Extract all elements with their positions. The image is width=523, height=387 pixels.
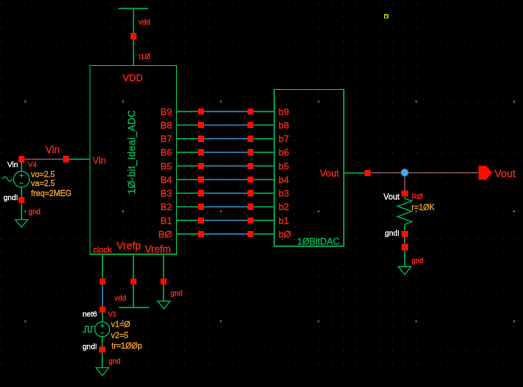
svg-text:Vrefp: Vrefp [117, 241, 142, 252]
wire Vin to ADC [69, 158, 90, 160]
svg-text:B2: B2 [160, 202, 172, 213]
pin square B6 right [248, 149, 254, 155]
wire B1 stub from ADC [177, 219, 199, 221]
label gnd (V4 branch) [29, 207, 41, 216]
label Vin (ADC pin) [93, 156, 107, 167]
pin square Vrefm [160, 278, 166, 284]
svg-text:freq=2MEG: freq=2MEG [31, 189, 72, 198]
pin square B8 left [198, 122, 204, 128]
svg-text:clock: clock [93, 245, 113, 254]
label gnd! (net name at V4) [4, 193, 19, 202]
svg-text:BØ: BØ [158, 229, 172, 240]
pin square B9 right [248, 108, 254, 114]
label VDD (ADC pin) [123, 73, 143, 84]
svg-text:b9: b9 [279, 107, 290, 118]
wire B3 stub from ADC [177, 192, 199, 194]
pin square Vrefp [130, 278, 136, 284]
svg-text:gnd!: gnd! [4, 193, 19, 202]
pin square B&#216; left [198, 231, 204, 237]
wire vdd stem to ADC VDD pin [133, 40, 135, 66]
svg-text:b8: b8 [279, 121, 290, 132]
svg-text:B6: B6 [160, 148, 172, 159]
pin square B7 right [248, 136, 254, 142]
wire B8 stub from ADC [177, 124, 199, 126]
svg-text:b1: b1 [279, 216, 290, 227]
label vdd (Vrefp supply) [115, 294, 127, 303]
wire B7 stub from ADC [177, 138, 199, 140]
pin square B3 left [198, 190, 204, 196]
svg-text:b7: b7 [279, 134, 290, 145]
svg-text:v2=5: v2=5 [111, 331, 129, 340]
label Vin (net label) [46, 145, 60, 156]
wire clock stub down [102, 254, 104, 278]
pin square B2 right [248, 204, 254, 210]
wire R0 to gnd (blue) [404, 237, 406, 244]
svg-text:gnd: gnd [29, 207, 41, 216]
wire clock net (blue) [102, 285, 104, 307]
wire V4 bottom lead [21, 187, 23, 197]
pin square gnd (V4 branch) [18, 197, 24, 203]
svg-text:I1Ø: I1Ø [139, 52, 151, 61]
label B9 (ADC output pin) [160, 107, 172, 118]
svg-text:Vin: Vin [46, 145, 60, 156]
ground (R0 branch) [398, 267, 411, 275]
svg-text:tr=1ØØp: tr=1ØØp [112, 342, 143, 351]
label B1 (ADC output pin) [160, 216, 172, 227]
label b1 (DAC input pin) [279, 216, 290, 227]
svg-text:B8: B8 [160, 121, 172, 132]
svg-text:va=2.5: va=2.5 [31, 179, 56, 188]
pin square B6 left [198, 149, 204, 155]
svg-text:bØ: bØ [279, 229, 292, 240]
pin square B7 left [198, 136, 204, 142]
wire Vout down to R0 (highlighted) [404, 176, 406, 190]
svg-text:Vout: Vout [383, 193, 400, 202]
output pin Vout (arrow) [479, 166, 493, 180]
label Vout (output net, large) [495, 168, 516, 180]
wire bit2 (blue) [204, 206, 247, 208]
label vo=2.5 (V4 value) [31, 170, 56, 179]
wire b6 stub into DAC [254, 151, 275, 153]
pin square gnd (V1 branch) [99, 346, 105, 352]
wire Vrefp stub down [132, 254, 134, 278]
op-amp/ADC block I10 body (10-bit_Ideal_ADC) [90, 66, 177, 255]
label b2 (DAC input pin) [279, 202, 290, 213]
pin square B4 right [248, 177, 254, 183]
wire b9 stub into DAC [254, 111, 275, 113]
label gnd (Vrefm branch) [171, 289, 183, 298]
pin square R0 bottom [402, 231, 408, 237]
svg-text:1ØBitDAC: 1ØBitDAC [297, 237, 340, 247]
svg-text:B5: B5 [160, 161, 172, 172]
svg-text:Vrefm: Vrefm [145, 244, 171, 255]
svg-text:V1: V1 [108, 310, 117, 319]
svg-text:v1=Ø: v1=Ø [111, 320, 130, 329]
wire Vrefm stub down [163, 254, 165, 278]
pin square B8 right [248, 122, 254, 128]
wire bit3 (blue) [204, 192, 247, 194]
pin square Vin right [63, 156, 69, 162]
svg-text:gnd!: gnd! [385, 228, 400, 237]
label Vrefp (ADC pin) [117, 241, 142, 252]
wire B2 stub from ADC [177, 206, 199, 208]
label B7 (ADC output pin) [160, 134, 172, 145]
label r=10K (resistor value) [412, 203, 436, 212]
svg-text:b6: b6 [279, 148, 290, 159]
label Vrefm (ADC pin) [145, 244, 171, 255]
label V4 (source name) [28, 160, 37, 169]
wire Vrefp to vdd bar [132, 285, 134, 308]
wire b8 stub into DAC [254, 124, 275, 126]
pin square on vdd stem [130, 33, 136, 39]
ground (Vrefm branch) [158, 301, 171, 309]
ground (V4 branch) [15, 220, 28, 228]
wire b1 stub into DAC [254, 219, 275, 221]
label B2 (ADC output pin) [160, 202, 172, 213]
label vdd (top supply) [139, 18, 151, 27]
label b&#216; (DAC input pin) [279, 229, 292, 240]
wire b2 stub into DAC [254, 206, 275, 208]
label gnd (V1 branch) [109, 357, 121, 366]
pulse symbol of V1 [83, 326, 95, 332]
voltage source V1 (vpulse) [95, 322, 110, 337]
pin square B4 left [198, 177, 204, 183]
wire bit0 (blue) [204, 233, 247, 235]
label gnd (R0 branch) [412, 256, 424, 265]
label net6 (net name) [83, 310, 98, 319]
label B5 (ADC output pin) [160, 161, 172, 172]
sine symbol of V4 [3, 177, 13, 181]
svg-text:B4: B4 [160, 175, 172, 186]
svg-text:gnd: gnd [412, 256, 424, 265]
wire B&#216; stub from ADC [177, 233, 199, 235]
pin square B3 right [248, 190, 254, 196]
wire bit9 (blue) [204, 111, 247, 113]
wire b7 stub into DAC [254, 138, 275, 140]
svg-text:gnd: gnd [109, 357, 121, 366]
pin square B5 left [198, 163, 204, 169]
label va=2.5 (V4 value) [31, 179, 56, 188]
svg-text:Vout: Vout [495, 168, 516, 180]
wire b&#216; stub into DAC [254, 233, 275, 235]
svg-text:Vin: Vin [93, 156, 107, 167]
pin square clock [99, 278, 105, 284]
label gnd! (net name at R0 gnd) [385, 228, 400, 237]
wire V1 top lead [102, 313, 104, 322]
label b4 (DAC input pin) [279, 175, 290, 186]
label b3 (DAC input pin) [279, 189, 290, 200]
label v2=5 (V1 value) [111, 331, 129, 340]
svg-text:1Ø-bit_Ideal_ADC: 1Ø-bit_Ideal_ADC [127, 110, 138, 194]
label gnd! (net name at V1) [83, 342, 98, 351]
pin square DAC Vout [364, 170, 370, 176]
vdd supply bar (Vrefp) [119, 307, 149, 309]
wire Vin net (highlighted) [25, 158, 63, 160]
label B4 (ADC output pin) [160, 175, 172, 186]
wire Vrefm to gnd [163, 285, 165, 302]
label clock (ADC pin) [93, 245, 113, 254]
wire bit6 (blue) [204, 151, 247, 153]
pin square B9 left [198, 108, 204, 114]
resistor R0 zigzag [398, 197, 412, 231]
wire B5 stub from ADC [177, 165, 199, 167]
vdd supply symbol [118, 9, 148, 34]
pin square B2 left [198, 204, 204, 210]
origin marker (yellow) [385, 15, 388, 18]
svg-text:gnd!: gnd! [83, 342, 98, 351]
label b5 (DAC input pin) [279, 161, 290, 172]
wire b3 stub into DAC [254, 192, 275, 194]
svg-text:vdd: vdd [115, 294, 127, 303]
label v1=0 (V1 value) [111, 320, 130, 329]
wire bit5 (blue) [204, 165, 247, 167]
svg-text:net6: net6 [83, 310, 98, 319]
svg-text:Vout: Vout [320, 169, 339, 180]
label B8 (ADC output pin) [160, 121, 172, 132]
voltage source V4 (vsin) [14, 171, 30, 187]
wire gnd stem (V1 branch) [101, 353, 103, 368]
ADC cell name 10-bit_Ideal_ADC [127, 110, 138, 194]
DAC cell name 10BitDAC [297, 237, 340, 247]
wire bit7 (blue) [204, 138, 247, 140]
svg-text:gnd: gnd [171, 289, 183, 298]
label B&#216; (ADC output pin) [158, 229, 172, 240]
wire V1 bottom lead [101, 337, 103, 347]
label Vout (DAC output pin) [320, 169, 339, 180]
label I10 (ADC instance name) [139, 52, 151, 61]
wire V4 top lead [21, 162, 23, 171]
wire bit4 (blue) [204, 179, 247, 181]
svg-text:vdd: vdd [139, 18, 151, 27]
pin square B&#216; right [248, 231, 254, 237]
wire B9 stub from ADC [177, 111, 199, 113]
wire b5 stub into DAC [254, 165, 275, 167]
wire b4 stub into DAC [254, 179, 275, 181]
pin square Vin left [18, 156, 24, 162]
svg-text:B1: B1 [160, 216, 172, 227]
svg-text:VDD: VDD [123, 73, 143, 84]
svg-text:Vin: Vin [7, 160, 18, 169]
pin square B5 right [248, 163, 254, 169]
wire gnd stem (R0 branch) [404, 250, 406, 266]
wire Vout net (highlighted) [371, 172, 479, 174]
wire bit1 (blue) [204, 219, 247, 221]
svg-text:b2: b2 [279, 202, 290, 213]
pin square net6 [99, 306, 105, 312]
pin square gnd (R0 branch) [402, 244, 408, 250]
svg-text:b3: b3 [279, 189, 290, 200]
pin square B1 right [248, 217, 254, 223]
label b7 (DAC input pin) [279, 134, 290, 145]
svg-text:B3: B3 [160, 189, 172, 200]
svg-text:vo=2.5: vo=2.5 [31, 170, 56, 179]
svg-text:RØ: RØ [412, 192, 423, 201]
label R0 (resistor name) [412, 192, 423, 201]
label B3 (ADC output pin) [160, 189, 172, 200]
svg-text:B7: B7 [160, 134, 172, 145]
DAC block body (10BitDAC) [274, 90, 344, 247]
label Vin (net name, white) [7, 160, 18, 169]
label freq=2MEG (V4 value) [31, 189, 72, 198]
wire B6 stub from ADC [177, 151, 199, 153]
node Vout junction dot [401, 169, 408, 176]
wire bit8 (blue) [204, 124, 247, 126]
label V1 (source name) [108, 310, 117, 319]
ground (V1 branch) [96, 368, 109, 376]
pin square B1 left [198, 217, 204, 223]
wire Vout stub from DAC [344, 172, 365, 174]
label b6 (DAC input pin) [279, 148, 290, 159]
svg-text:V4: V4 [28, 160, 37, 169]
svg-text:B9: B9 [160, 107, 172, 118]
label b9 (DAC input pin) [279, 107, 290, 118]
wire B4 stub from ADC [177, 179, 199, 181]
wire gnd stem (V4 branch) [21, 203, 23, 220]
svg-text:b4: b4 [279, 175, 290, 186]
label Vout (net name at R0) [383, 193, 400, 202]
label B6 (ADC output pin) [160, 148, 172, 159]
pin square R0 top [402, 190, 408, 196]
label tr=100p (V1 value) [112, 342, 143, 351]
svg-text:r=1ØK: r=1ØK [412, 203, 436, 212]
label b8 (DAC input pin) [279, 121, 290, 132]
svg-text:b5: b5 [279, 161, 290, 172]
